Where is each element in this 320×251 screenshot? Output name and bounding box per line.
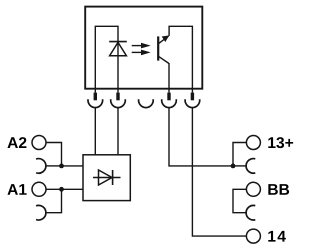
wire collector down to conn4 (168, 63, 170, 93)
LED D1 cathode bar (109, 41, 127, 43)
socket arc conn2 (111, 99, 126, 107)
socket arc A2 (36, 159, 46, 174)
wire conn2 down to diode box (117, 108, 119, 155)
label 14 (268, 231, 286, 242)
socket arc A1 (36, 205, 46, 220)
input protection diode box (83, 155, 130, 201)
LED D1 triangle (110, 42, 127, 55)
socket arc conn4 (162, 99, 177, 107)
plug pin conn2 (116, 93, 119, 101)
wire conn4 down and right to node 13+ (169, 108, 233, 166)
terminal circle 14 (246, 229, 260, 243)
terminal circle BB (246, 182, 260, 196)
socket arc conn5 (185, 99, 200, 107)
label BB (268, 184, 289, 195)
wire conn1 down to diode box (94, 108, 96, 155)
socket arc conn3 (empty) (139, 99, 154, 107)
wire 13+ circle to node (233, 143, 246, 166)
wire A2 node to diode box (62, 165, 84, 167)
transistor Q1 emitter diagonal (top) (159, 36, 169, 43)
diode D2 triangle (99, 170, 113, 185)
light arrow 2 (132, 50, 151, 56)
label A2 (7, 137, 26, 148)
diode D2 cathode bar (112, 170, 114, 185)
transistor Q1 emitter arrowhead (162, 35, 170, 42)
terminal circle A2 (32, 136, 46, 150)
plug pin conn1 (94, 93, 97, 101)
transistor Q1 collector diagonal (bottom) (159, 57, 169, 64)
plug pin conn4 (167, 93, 170, 101)
label A1 (7, 184, 26, 195)
label 13+ (268, 137, 293, 148)
wire A1 node down to arc (46, 189, 62, 212)
phototransistor Q1 base bar (157, 36, 159, 60)
wire conn5 down and right to terminal 14 (192, 108, 246, 237)
socket arc conn1 (88, 99, 103, 107)
diode D2 line (93, 177, 121, 179)
plug pin conn5 (191, 93, 194, 101)
terminal circle A1 (32, 182, 46, 196)
junction node 13+ (231, 164, 236, 169)
wire LED loop: conn1 up, across top, down through LED to conn2 (95, 26, 118, 92)
terminal circle 13+ (246, 136, 260, 150)
junction node A2 (59, 164, 64, 169)
wire A2 circle to bus (46, 143, 62, 166)
junction node A1 (59, 187, 64, 192)
optocoupler module outline box U1 (85, 7, 202, 89)
wire emitter loop: up, across top, down to conn5 (169, 26, 192, 92)
wire A2 arc to bus (46, 165, 62, 167)
wire node to 13+ arc (233, 165, 246, 167)
wire BB bracket (233, 189, 246, 212)
wire A1 circle to diode box (46, 188, 83, 190)
light arrow 1 (132, 43, 151, 49)
socket arc BB (246, 205, 255, 220)
socket arc 13+ (246, 159, 255, 174)
